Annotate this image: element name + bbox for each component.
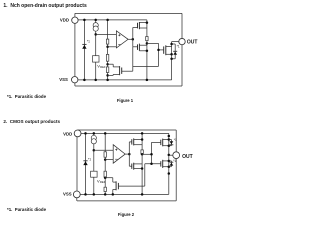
svg-text:*1: *1	[88, 157, 91, 161]
svg-text:OUT: OUT	[187, 39, 198, 45]
svg-text:VDD: VDD	[63, 131, 72, 136]
svg-text:VSS: VSS	[59, 77, 68, 82]
svg-text:*1: *1	[174, 138, 177, 142]
svg-text:Figure 2: Figure 2	[118, 212, 135, 217]
svg-text:REF: REF	[100, 65, 106, 69]
svg-text:*1. Parasitic diode: *1. Parasitic diode	[7, 207, 47, 212]
svg-text:Figure 1: Figure 1	[117, 98, 134, 103]
svg-text:*1. Parasitic diode: *1. Parasitic diode	[7, 94, 47, 99]
svg-text:*1: *1	[173, 159, 176, 163]
svg-text:VDD: VDD	[60, 17, 69, 22]
svg-text:VSS: VSS	[63, 192, 72, 197]
svg-text:2. CMOS output products: 2. CMOS output products	[3, 119, 60, 124]
svg-text:*1: *1	[177, 45, 180, 49]
svg-text:*1: *1	[87, 40, 90, 44]
svg-text:1. Nch open-drain output prod: 1. Nch open-drain output products	[3, 3, 87, 9]
svg-text:OUT: OUT	[182, 154, 193, 160]
